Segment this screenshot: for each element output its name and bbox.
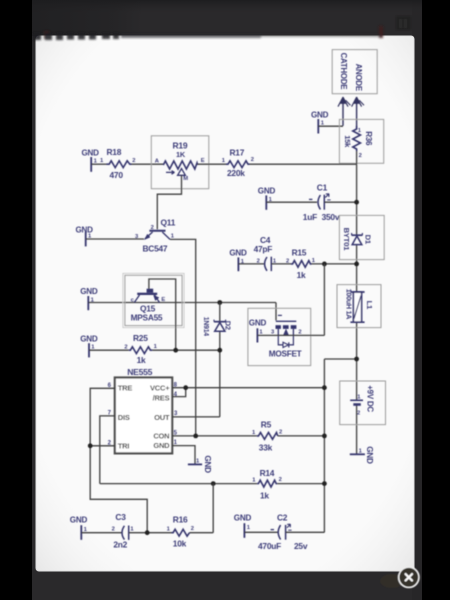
resistor R18 470 (100, 147, 136, 180)
svg-text:GND: GND (80, 287, 98, 296)
capacitor C2 470uF 25v (258, 513, 308, 551)
wire C2 to aux bus (286, 531, 325, 533)
junction pin8 row / aux bus (322, 385, 327, 390)
wire R25 to D2 line (152, 349, 220, 351)
svg-text:1k: 1k (137, 355, 146, 365)
svg-text:GND: GND (311, 111, 329, 120)
svg-text:GND: GND (153, 441, 170, 450)
capacitor C4 47pF (254, 235, 277, 271)
wire gnd to Q11 emitter (86, 238, 144, 240)
svg-text:TRE: TRE (118, 383, 133, 392)
svg-text:D1: D1 (363, 235, 372, 245)
transistor Q11 BC547 (135, 218, 176, 254)
svg-text:220k: 220k (227, 168, 245, 178)
wire pin2 TRI (90, 445, 115, 447)
wire gnd-C2 (244, 531, 278, 533)
wire pin6 TRE to bottom left (90, 388, 147, 532)
resistor R14 1k (252, 468, 282, 501)
svg-text:E: E (161, 297, 165, 303)
wire gnd-C4 (238, 263, 265, 265)
wire gnd-C1 (266, 201, 317, 203)
transistor MOSFET (248, 308, 311, 365)
junction R14 / aux bus (322, 481, 327, 486)
svg-text:MOSFET: MOSFET (269, 350, 302, 359)
svg-text:350v: 350v (322, 212, 340, 222)
junction C3/R16/pin6 (145, 530, 150, 535)
svg-text:GND: GND (258, 187, 276, 196)
white schematic page (36, 36, 414, 571)
svg-text:Q11: Q11 (161, 218, 176, 228)
close button bottom right (380, 567, 419, 588)
ground port near R18 (82, 149, 100, 172)
wire pin1 GND (172, 446, 195, 465)
junction R5 / aux bus (322, 434, 327, 439)
junction R15/main bus (354, 262, 359, 267)
svg-text:M: M (183, 176, 188, 182)
svg-text:R19: R19 (173, 140, 188, 150)
svg-text:MPSA55: MPSA55 (131, 313, 163, 323)
connector J1 ANODE/CATHODE box (332, 50, 377, 94)
wire anode arrow (352, 97, 364, 129)
svg-text:2: 2 (286, 258, 289, 264)
ground port near R36 (311, 111, 329, 134)
ground port inside mosfet box (249, 319, 267, 343)
battery +9V DC (340, 381, 386, 425)
ground port near C3 (70, 516, 88, 540)
wire gnd to cathode (318, 125, 343, 127)
svg-text:2: 2 (359, 153, 362, 159)
svg-text:C1: C1 (317, 183, 328, 193)
wire pin7 DIS down (100, 416, 115, 484)
svg-text:10k: 10k (173, 538, 187, 548)
svg-text:D2: D2 (224, 321, 233, 330)
svg-text:R16: R16 (173, 514, 188, 524)
svg-text:C3: C3 (115, 512, 126, 522)
svg-text:2: 2 (124, 344, 127, 350)
ground 555 (188, 455, 212, 473)
svg-text:100uH 1A: 100uH 1A (344, 289, 352, 319)
ground port near R25 (80, 334, 98, 357)
wire aux bus lower (323, 359, 325, 532)
timer IC U1 NE555 (108, 367, 178, 453)
junction L1 bottom (354, 357, 359, 362)
wire pin3 OUT to D2 line (172, 416, 220, 418)
svg-text:GND: GND (229, 248, 247, 257)
svg-text:1uF: 1uF (303, 212, 317, 222)
ground port near C2 (234, 514, 252, 538)
junction R16 / R14 row (211, 481, 216, 486)
svg-text:33k: 33k (259, 442, 273, 452)
wire R36 to bus (356, 151, 358, 164)
wire C4-R15 (271, 263, 291, 265)
svg-text:CON: CON (153, 432, 169, 441)
junction D2 bottom / R25 (217, 348, 222, 353)
svg-text:2: 2 (357, 411, 360, 417)
wire aux bus upper (323, 264, 325, 336)
svg-text:GND: GND (82, 149, 100, 158)
wire mosfet source row (257, 334, 324, 336)
wire R14 row (100, 483, 325, 485)
wire R19-R17 (198, 163, 227, 165)
wire Q15 row (88, 302, 276, 304)
svg-text:OUT: OUT (154, 413, 170, 422)
wire R15 to buses (312, 263, 357, 265)
svg-text:DIS: DIS (118, 413, 130, 422)
svg-text:15k: 15k (343, 135, 352, 148)
wire cathode arrow (338, 97, 350, 126)
ground port near Q15 (80, 287, 98, 310)
inductor L1 100uH 1A (337, 285, 381, 328)
svg-text:1K: 1K (176, 150, 186, 159)
svg-text:1N914: 1N914 (202, 317, 209, 336)
ground port near C4 (229, 248, 247, 271)
svg-text:470: 470 (110, 170, 124, 180)
top-right dark icon (0, 0, 1, 1)
svg-text:1k: 1k (260, 491, 269, 501)
svg-text:2: 2 (251, 157, 254, 163)
svg-text:470uF: 470uF (258, 541, 281, 551)
svg-text:NE555: NE555 (127, 367, 152, 377)
svg-text:47pF: 47pF (254, 244, 273, 254)
junction pin5 / Q11 line (193, 434, 198, 439)
resistor R17 220k (222, 147, 254, 178)
wire Q15 row corner to mosfet gate (275, 303, 277, 321)
resistor R36 15k (339, 119, 383, 163)
ragged dark top edge of photo bar over page (33, 26, 383, 40)
svg-text:2n2: 2n2 (113, 539, 127, 549)
svg-text:2: 2 (151, 225, 154, 231)
capacitor C3 2n2 (112, 512, 135, 550)
svg-text:GND: GND (234, 514, 252, 523)
svg-text:CATHODE: CATHODE (339, 53, 348, 90)
transistor Q15 MPSA55 (123, 273, 184, 327)
svg-text:25v: 25v (294, 541, 308, 551)
junction C1/bus (354, 200, 359, 205)
wire R19 wiper to Q11 (157, 175, 181, 229)
diode D1 BYT01 (339, 215, 384, 259)
svg-text:2: 2 (257, 259, 260, 265)
junction D2 top (217, 300, 222, 305)
svg-text:1k: 1k (297, 270, 306, 280)
svg-text:GND: GND (80, 334, 98, 343)
svg-text:/RES: /RES (153, 393, 170, 402)
svg-text:GND: GND (203, 455, 212, 473)
wire R5 to aux bus (278, 435, 325, 437)
ground port near Q11 (76, 226, 94, 247)
svg-text:2: 2 (298, 329, 301, 335)
wire gnd-R18 (91, 163, 106, 165)
svg-text:C2: C2 (277, 513, 288, 523)
wire pin8 VCC row (172, 387, 324, 389)
wire gnd-C3 (81, 532, 122, 534)
capacitor C1 1uF 350v (303, 183, 340, 222)
svg-text:GND: GND (365, 446, 374, 464)
svg-text:R17: R17 (230, 147, 245, 157)
wire R16 riser (212, 484, 214, 533)
svg-text:TRI: TRI (118, 442, 130, 451)
svg-text:BYT01: BYT01 (342, 228, 351, 252)
svg-text:ANODE: ANODE (354, 64, 363, 91)
svg-text:GND: GND (70, 516, 88, 525)
svg-text:E: E (201, 158, 205, 164)
svg-text:2: 2 (132, 158, 135, 164)
wire jog aux bus to main bus (324, 358, 356, 360)
wire Q15 base loop (149, 279, 176, 350)
wire R17 to bus (250, 163, 357, 165)
wire R16 to riser (190, 532, 214, 534)
svg-text:+9V DC: +9V DC (366, 385, 375, 412)
wire Q11 collector to long vertical (170, 239, 196, 436)
svg-text:R14: R14 (260, 468, 275, 478)
resistor R16 10k (167, 514, 194, 548)
svg-text:BC547: BC547 (143, 244, 168, 254)
wire R18-R19 (132, 163, 164, 165)
wire C1 to bus (324, 201, 356, 203)
resistor R15 1k (286, 248, 316, 280)
ground battery (350, 446, 374, 464)
potentiometer R19 1K (151, 136, 209, 189)
junction pin6/pin2 (88, 443, 93, 448)
svg-text:R15: R15 (292, 248, 307, 258)
svg-text:R36: R36 (364, 131, 373, 146)
main right bus vertical (356, 164, 358, 454)
svg-text:2: 2 (279, 429, 282, 435)
junction pin8/pin4 (183, 385, 188, 390)
wire pin4 RES loop (172, 388, 186, 397)
wire C3 to junction (129, 532, 172, 534)
svg-text:R18: R18 (107, 147, 122, 157)
svg-text:L1: L1 (365, 301, 374, 310)
svg-text:2: 2 (112, 526, 115, 532)
svg-text:2: 2 (191, 526, 194, 532)
diode D2 1N914 (202, 303, 233, 417)
wire gnd-R25 (89, 349, 129, 351)
ground port near C1 (258, 187, 276, 210)
resistor R25 1k (124, 333, 157, 365)
svg-text:R5: R5 (261, 420, 272, 430)
junction R15/aux bus (322, 262, 327, 267)
svg-text:R25: R25 (133, 333, 148, 343)
wire pin5 CON row (172, 435, 257, 437)
svg-text:GND: GND (249, 319, 267, 328)
junction Q15 loop / R25 (173, 348, 178, 353)
resistor R5 33k (252, 420, 282, 453)
svg-text:VCC+: VCC+ (150, 384, 170, 393)
svg-text:2: 2 (279, 477, 282, 483)
